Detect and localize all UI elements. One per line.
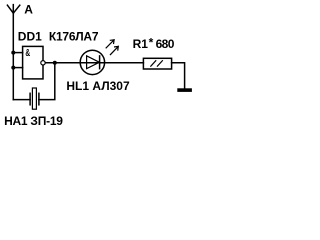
piezo HA1 crystal body: [32, 88, 36, 109]
svg-text:680: 680: [156, 37, 175, 51]
svg-text:R1: R1: [133, 37, 149, 51]
svg-text:К176ЛА7: К176ЛА7: [49, 29, 99, 43]
piezo HA1 left plate: [29, 93, 31, 105]
gate DD1 body: [23, 46, 43, 79]
junction dot input 2: [11, 66, 15, 70]
LED HL1 triangle: [87, 56, 100, 69]
wire input stub 2: [13, 67, 22, 69]
LED HL1 light arrow 2: [110, 46, 118, 54]
wire input stub 1: [13, 52, 22, 54]
svg-text:*: *: [149, 36, 154, 50]
piezo HA1 right plate: [38, 93, 40, 105]
wire bottom left to piezo: [13, 99, 30, 101]
svg-text:A: A: [24, 2, 33, 16]
resistor R1 power slashes: [151, 61, 163, 66]
wire left vertical: [12, 13, 14, 99]
junction dot input 1: [11, 51, 15, 55]
resistor R1 body: [143, 58, 171, 69]
svg-text:НА1 ЗП-19: НА1 ЗП-19: [4, 114, 63, 128]
junction dot output branch: [53, 61, 57, 65]
LED HL1 body circle: [80, 50, 104, 74]
wire resistor to ground: [172, 63, 185, 89]
LED HL1 cathode bar: [99, 56, 101, 69]
gate DD1 inversion bubble: [41, 61, 45, 65]
svg-text:HL1 АЛ307: HL1 АЛ307: [66, 79, 130, 93]
ground bar: [177, 88, 192, 92]
svg-text:&: &: [25, 48, 30, 59]
wire output rail: [46, 62, 144, 64]
wire branch down to piezo: [39, 63, 55, 100]
svg-text:DD1: DD1: [18, 29, 42, 43]
LED HL1 light arrow 1: [106, 40, 114, 48]
antenna: [7, 5, 19, 14]
